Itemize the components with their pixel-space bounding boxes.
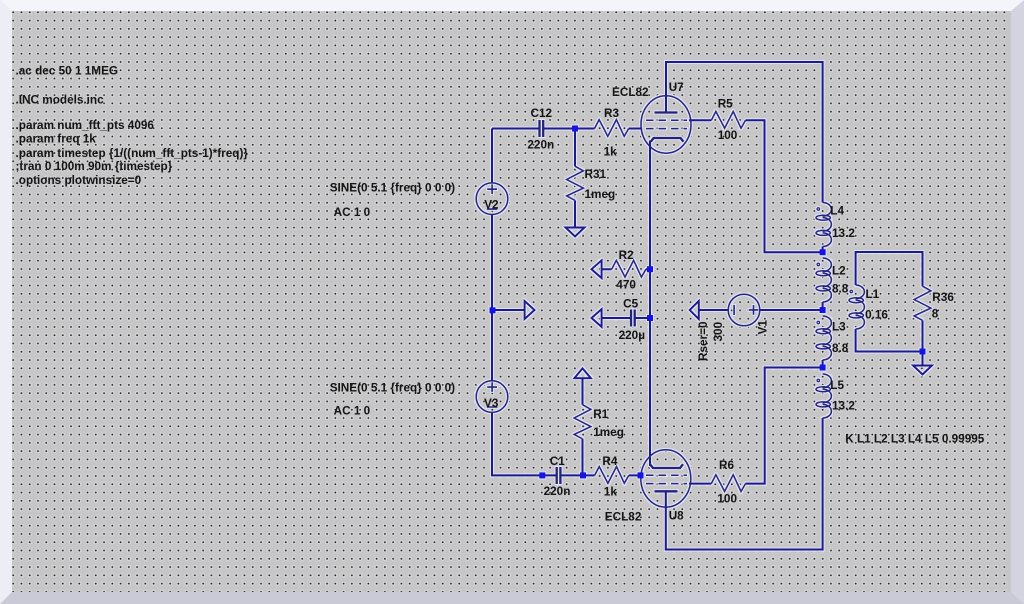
svg-text:;tran 0 100m 90m {timestep}: ;tran 0 100m 90m {timestep} xyxy=(16,160,173,173)
svg-text:R5: R5 xyxy=(718,98,733,111)
svg-text:.INC models.inc: .INC models.inc xyxy=(16,93,105,106)
svg-text:.param num_fft_pts 4096: .param num_fft_pts 4096 xyxy=(16,119,155,132)
svg-text:C1: C1 xyxy=(550,455,565,468)
svg-text:R1: R1 xyxy=(593,408,608,421)
svg-text:470: 470 xyxy=(616,278,636,291)
svg-text:220µ: 220µ xyxy=(619,329,646,342)
svg-text:300: 300 xyxy=(712,321,725,341)
svg-text:U8: U8 xyxy=(669,510,684,523)
svg-text:1meg: 1meg xyxy=(585,188,616,201)
svg-text:C12: C12 xyxy=(531,107,553,120)
svg-text:.options plotwinsize=0: .options plotwinsize=0 xyxy=(16,174,142,187)
svg-text:13.2: 13.2 xyxy=(832,400,855,413)
svg-text:R4: R4 xyxy=(602,455,617,468)
svg-text:.param freq 1k: .param freq 1k xyxy=(16,133,97,146)
svg-text:V1: V1 xyxy=(757,320,770,335)
svg-text:220n: 220n xyxy=(527,139,554,152)
svg-text:R31: R31 xyxy=(585,168,607,181)
svg-text:R6: R6 xyxy=(719,459,734,472)
svg-text:K L1 L2 L3 L4 L5 0.99995: K L1 L2 L3 L4 L5 0.99995 xyxy=(845,433,985,446)
svg-text:AC 1 0: AC 1 0 xyxy=(334,405,371,418)
svg-text:V2: V2 xyxy=(484,199,499,212)
svg-text:0.16: 0.16 xyxy=(865,309,888,322)
svg-text:8.8: 8.8 xyxy=(832,342,849,355)
svg-text:ECL82: ECL82 xyxy=(612,86,649,99)
svg-text:8.8: 8.8 xyxy=(832,283,849,296)
svg-text:.param timestep {1/((num_fft_p: .param timestep {1/((num_fft_pts-1)*freq… xyxy=(16,147,249,160)
svg-text:U7: U7 xyxy=(669,81,684,94)
svg-text:100: 100 xyxy=(718,129,738,142)
svg-text:100: 100 xyxy=(717,492,737,505)
svg-text:L3: L3 xyxy=(832,321,846,334)
svg-text:L4: L4 xyxy=(830,204,844,217)
svg-text:.ac dec 50 1 1MEG: .ac dec 50 1 1MEG xyxy=(16,65,119,78)
svg-text:1k: 1k xyxy=(604,146,618,159)
svg-text:ECL82: ECL82 xyxy=(605,511,642,524)
svg-text:8: 8 xyxy=(932,308,939,321)
svg-text:R36: R36 xyxy=(932,291,954,304)
svg-text:13.2: 13.2 xyxy=(832,227,855,240)
svg-text:1k: 1k xyxy=(604,486,618,499)
svg-text:C5: C5 xyxy=(623,297,638,310)
svg-text:R3: R3 xyxy=(604,107,619,120)
svg-text:1meg: 1meg xyxy=(593,426,624,439)
svg-text:R2: R2 xyxy=(619,249,634,262)
svg-text:SINE(0 5.1 {freq} 0 0 0): SINE(0 5.1 {freq} 0 0 0) xyxy=(330,182,455,195)
svg-text:220n: 220n xyxy=(544,485,571,498)
svg-text:Rser=0: Rser=0 xyxy=(697,321,710,361)
svg-text:V3: V3 xyxy=(484,397,499,410)
svg-text:L5: L5 xyxy=(830,379,844,392)
svg-text:L2: L2 xyxy=(832,264,846,277)
svg-text:SINE(0 5.1 {freq} 0 0 0): SINE(0 5.1 {freq} 0 0 0) xyxy=(330,381,455,394)
svg-text:AC 1 0: AC 1 0 xyxy=(334,206,371,219)
svg-text:L1: L1 xyxy=(866,288,880,301)
